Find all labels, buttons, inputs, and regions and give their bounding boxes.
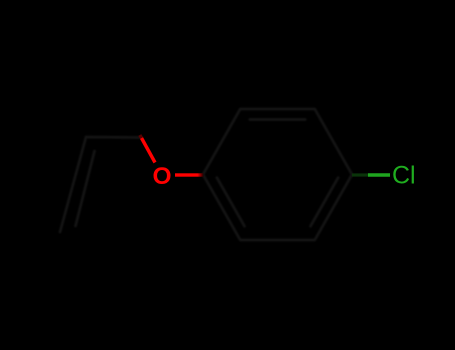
aromatic inner bond lower-left — [217, 178, 245, 227]
bond O-ring red segment — [175, 173, 198, 176]
bond C1-O dark tip — [140, 135, 142, 138]
allyl double bond C2=C3 main line — [60, 137, 86, 232]
allyl single bond C2-C1 — [86, 136, 142, 139]
bond O-ring fade tail — [198, 173, 204, 176]
svg-text:Cl: Cl — [392, 162, 416, 190]
aromatic inner bond top — [250, 118, 305, 121]
bond C1-O red half (diagonal) — [142, 138, 156, 163]
benzene ring C1-C6 hexagon — [203, 109, 352, 240]
allyl double bond C2=C3 inner line — [76, 151, 95, 226]
svg-text:O: O — [153, 163, 172, 190]
bond ring-Cl dark half — [352, 173, 368, 176]
carbon skeleton group (very dark lines) — [60, 109, 352, 240]
aromatic inner bond lower-right — [311, 178, 339, 227]
bond ring-Cl bright half — [368, 173, 390, 176]
